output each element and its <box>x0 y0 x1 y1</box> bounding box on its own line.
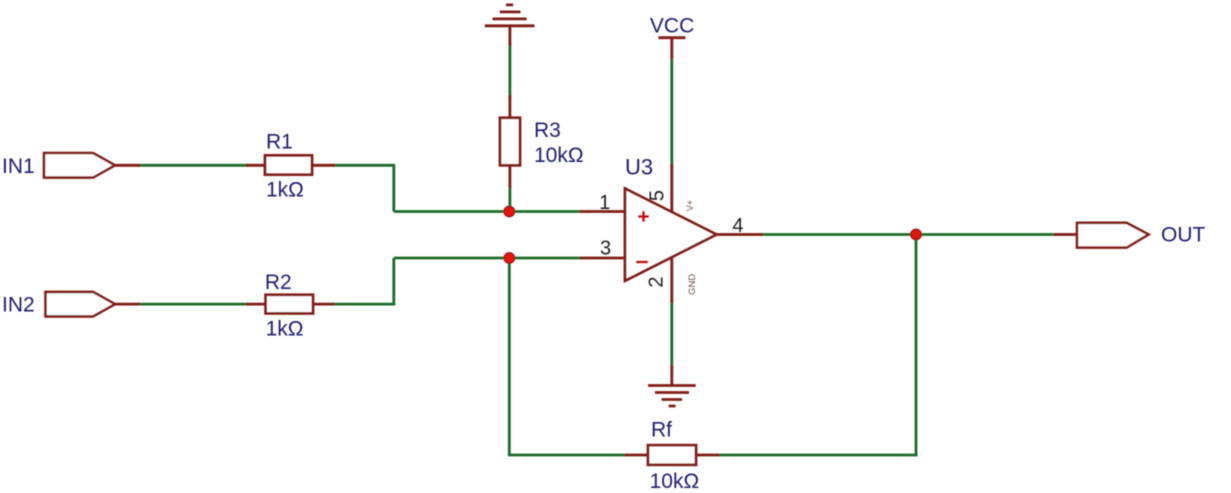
wire VCC to op-amp V+ <box>670 57 673 166</box>
label VCC <box>650 15 694 38</box>
junction node B <box>504 253 515 264</box>
pin name GND <box>687 274 698 295</box>
svg-text:OUT: OUT <box>1161 223 1206 246</box>
pin number 3 <box>600 238 611 260</box>
top ground <box>485 5 535 46</box>
resistor R3 <box>500 95 520 188</box>
pin number 4 <box>732 215 743 237</box>
junction node A <box>504 206 515 217</box>
svg-text:2: 2 <box>646 276 668 287</box>
pin name V+ <box>685 200 695 211</box>
label IN2 <box>2 293 35 316</box>
svg-text:GND: GND <box>687 274 698 295</box>
bottom ground <box>648 365 696 406</box>
svg-text:5: 5 <box>647 190 669 201</box>
op-amp plus input marker <box>638 211 649 222</box>
pin 2 (GND supply pin) <box>670 258 673 304</box>
label IN1 <box>2 155 35 178</box>
label R3 <box>534 119 561 142</box>
label R2 <box>265 271 292 294</box>
pin number 5 <box>647 190 669 201</box>
svg-text:U3: U3 <box>625 155 653 180</box>
svg-text:V+: V+ <box>685 200 695 211</box>
value 1k ohm of R1 <box>266 179 304 202</box>
wire R2 to node B <box>333 258 581 306</box>
svg-text:IN2: IN2 <box>2 293 35 316</box>
svg-text:1: 1 <box>599 192 610 214</box>
resistor R2 <box>246 295 335 314</box>
label OUT <box>1161 223 1206 246</box>
svg-text:10kΩ: 10kΩ <box>534 144 584 167</box>
svg-text:VCC: VCC <box>650 15 694 38</box>
port IN2 <box>46 292 141 317</box>
svg-text:R3: R3 <box>534 119 561 142</box>
resistor R1 <box>246 155 335 174</box>
wire R1 to node A <box>333 164 581 212</box>
svg-text:3: 3 <box>600 238 611 260</box>
wire feedback from output node to Rf <box>718 233 917 456</box>
label Rf <box>651 419 672 442</box>
wire node B to Rf <box>509 258 626 456</box>
wire R3 to node A <box>508 186 511 212</box>
wire top ground to R3 <box>508 44 511 97</box>
resistor Rf <box>625 445 720 465</box>
op-amp U3 <box>625 189 717 281</box>
svg-text:10kΩ: 10kΩ <box>650 470 700 493</box>
pin 1 (non-inverting input) <box>580 210 625 213</box>
wire op-amp output to OUT <box>761 233 1056 236</box>
op-amp minus input marker <box>636 261 648 264</box>
svg-text:R1: R1 <box>266 131 293 154</box>
port IN1 <box>44 153 140 178</box>
wire op-amp GND pin to bottom ground <box>670 301 673 367</box>
value 10k ohm of R3 <box>534 144 584 167</box>
pin 4 (output) <box>717 233 764 236</box>
svg-text:Rf: Rf <box>651 419 672 442</box>
pin 3 (inverting input) <box>580 257 625 260</box>
svg-text:1kΩ: 1kΩ <box>266 317 304 340</box>
wire IN1 to R1 <box>138 164 248 167</box>
svg-text:4: 4 <box>732 215 743 237</box>
pin number 2 <box>646 276 668 287</box>
pin number 1 <box>599 192 610 214</box>
VCC supply symbol <box>658 38 685 59</box>
port OUT <box>1054 223 1149 248</box>
value 10k ohm of Rf <box>650 470 700 493</box>
svg-text:IN1: IN1 <box>2 155 35 178</box>
junction output node <box>911 229 922 240</box>
svg-text:R2: R2 <box>265 271 292 294</box>
value 1k ohm of R2 <box>266 317 304 340</box>
wire IN2 to R2 <box>138 303 248 306</box>
pin 5 (V+ supply pin) <box>670 164 673 212</box>
label R1 <box>266 131 293 154</box>
label U3 <box>625 155 653 180</box>
svg-text:1kΩ: 1kΩ <box>266 179 304 202</box>
